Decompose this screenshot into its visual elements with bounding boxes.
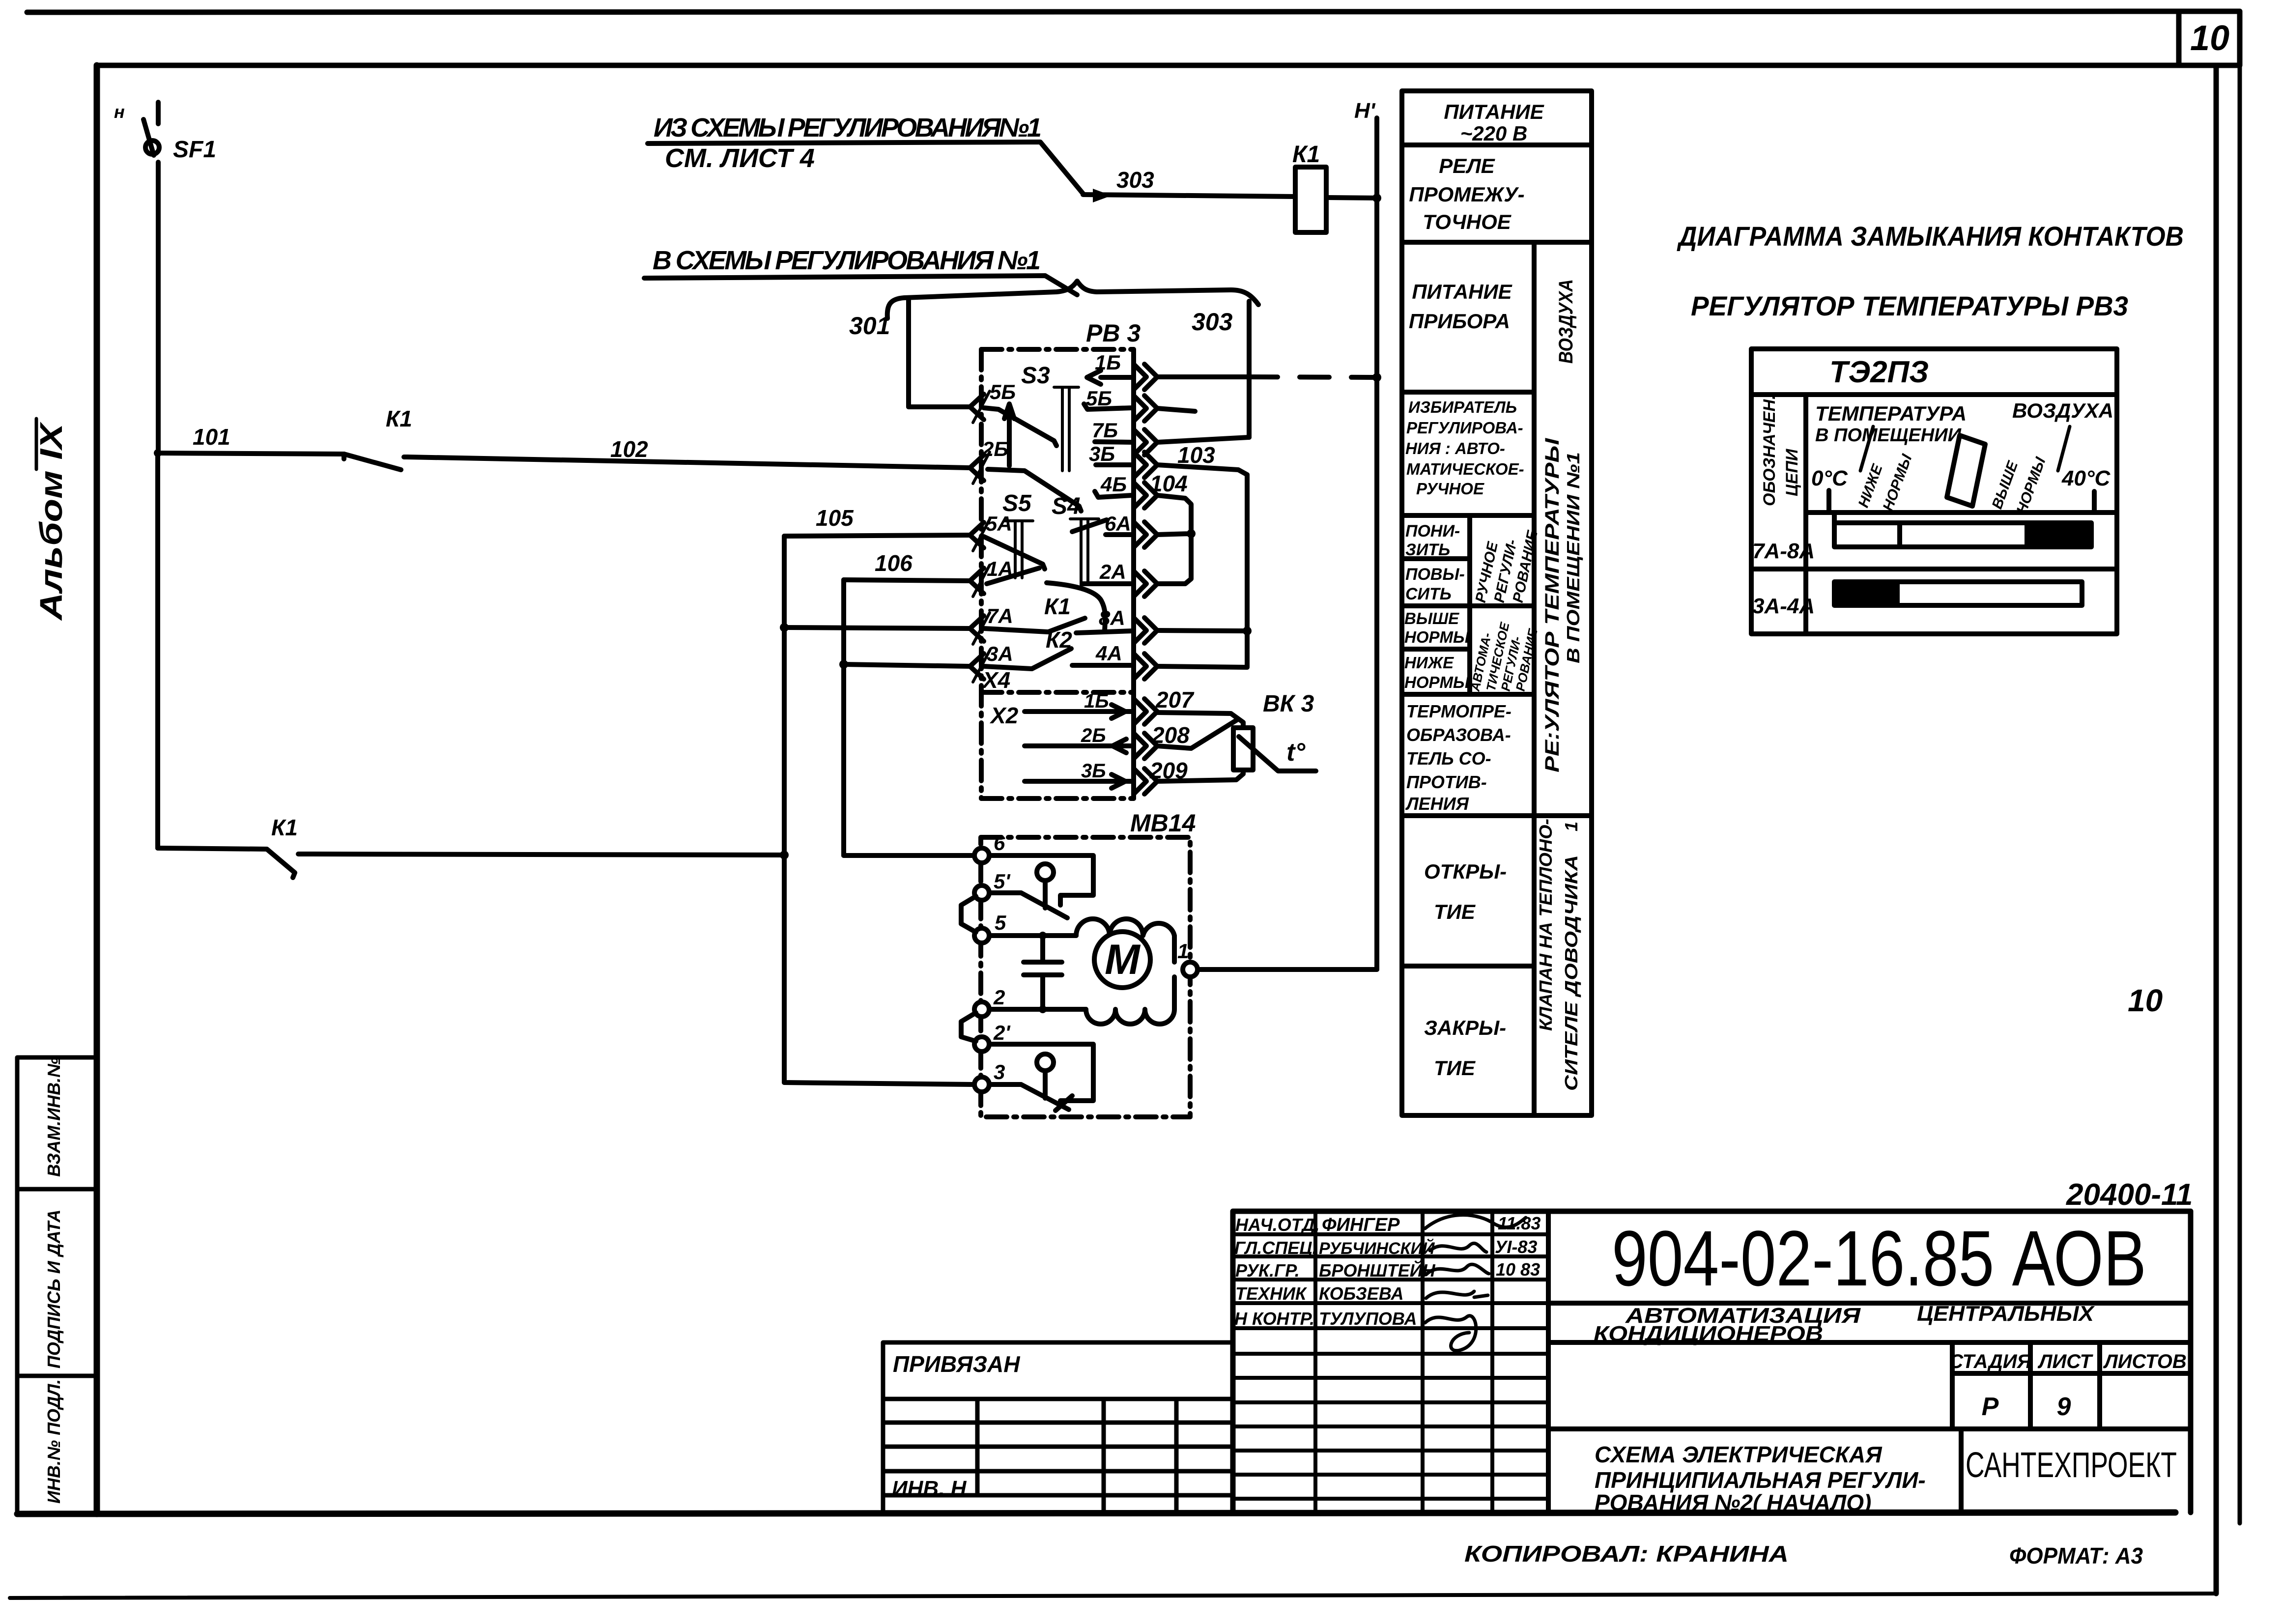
staff row2 — [1234, 1237, 1537, 1258]
page top edge line — [27, 11, 2179, 12]
svg-text:ГЛ.СПЕЦ.: ГЛ.СПЕЦ. — [1234, 1238, 1317, 1258]
svg-text:СХЕМА ЭЛЕКТРИЧЕСКАЯ: СХЕМА ЭЛЕКТРИЧЕСКАЯ — [1595, 1442, 1883, 1467]
drawing frame top line — [97, 63, 2216, 68]
switch S3 blade 2B — [988, 469, 1081, 511]
drawing frame left line — [94, 65, 100, 1514]
svg-text:ПРИВЯЗАН: ПРИВЯЗАН — [893, 1351, 1020, 1377]
svg-text:ПРИНЦИПИАЛЬНАЯ РЕГУЛИ-: ПРИНЦИПИАЛЬНАЯ РЕГУЛИ- — [1595, 1467, 1926, 1493]
svg-text:НИЯ : АВТО-: НИЯ : АВТО- — [1405, 439, 1505, 457]
svg-text:7А-8А: 7А-8А — [1752, 539, 1815, 563]
svg-text:ВЫШЕ: ВЫШЕ — [1404, 609, 1459, 627]
connector pin 6A right — [1134, 522, 1157, 547]
connector pin 1B X2 — [1134, 699, 1157, 724]
svg-text:СМ. ЛИСТ 4: СМ. ЛИСТ 4 — [665, 143, 815, 173]
connector pin 8A right — [1134, 618, 1157, 643]
svg-text:НАЧ.ОТД.: НАЧ.ОТД. — [1235, 1215, 1320, 1235]
motor pin 2 — [974, 1002, 989, 1017]
wire 208 to sensor — [1157, 719, 1238, 748]
motor pin 5 — [974, 928, 989, 943]
table text ponizit — [1405, 522, 1460, 559]
svg-text:3А-4А: 3А-4А — [1752, 594, 1815, 618]
svg-text:207: 207 — [1155, 687, 1195, 712]
table text zakrytie — [1424, 1016, 1506, 1080]
svg-text:ТЕЛЬ СО-: ТЕЛЬ СО- — [1406, 748, 1491, 769]
svg-text:Х2: Х2 — [989, 703, 1019, 728]
svg-text:ВЗАМ.ИНВ.№: ВЗАМ.ИНВ.№ — [44, 1057, 64, 1177]
node capacitor bottom — [1039, 1005, 1047, 1013]
staff row1 — [1235, 1213, 1540, 1235]
connector pin 2B left — [970, 452, 990, 484]
svg-text:Альбом IX: Альбом IX — [33, 422, 69, 621]
table text avtomaticheskoe rotated — [1467, 621, 1540, 693]
connector pin 3A left — [970, 651, 990, 682]
svg-text:2Б: 2Б — [982, 437, 1008, 460]
svg-text:~220 В: ~220 В — [1460, 122, 1528, 145]
fixed contact 3B right — [1096, 462, 1132, 467]
stadiya list listov header — [1949, 1351, 2187, 1372]
svg-text:t°: t° — [1286, 738, 1306, 767]
svg-text:S4: S4 — [1052, 493, 1081, 519]
svg-text:ОБОЗНАЧЕН.: ОБОЗНАЧЕН. — [1760, 395, 1779, 506]
svg-text:ВОЗДУХА: ВОЗДУХА — [2012, 399, 2113, 422]
svg-text:2Б: 2Б — [1081, 725, 1106, 746]
title block big dividers — [1548, 1211, 2191, 1512]
contact K1 upper — [344, 454, 408, 470]
diagram scale 40C — [2061, 466, 2111, 513]
limit switch upper roller — [1037, 864, 1054, 908]
switch S5 actuator rod — [1004, 521, 1033, 578]
diagram text temperatura — [1815, 399, 2113, 446]
svg-text:Н': Н' — [1354, 99, 1376, 123]
svg-text:103: 103 — [1177, 442, 1215, 468]
limit switch lower roller — [1037, 1054, 1054, 1098]
svg-text:5: 5 — [995, 911, 1006, 934]
svg-text:РУБЧИНСКИЙ: РУБЧИНСКИЙ — [1319, 1239, 1435, 1258]
svg-text:ПОНИ-: ПОНИ- — [1405, 522, 1460, 541]
net 106 vertical — [841, 580, 846, 855]
table text ruchnoe rotated — [1473, 529, 1541, 604]
jumper 5p-5 — [961, 896, 976, 932]
svg-text:ЛИСТОВ: ЛИСТОВ — [2103, 1351, 2187, 1372]
RV3 box left dashed edge — [979, 349, 984, 798]
svg-text:4А: 4А — [1095, 642, 1122, 665]
svg-text:4Б: 4Б — [1100, 473, 1127, 496]
wire 303 to N bus — [1326, 198, 1377, 198]
node on N bus — [1372, 194, 1381, 202]
svg-text:ТИЕ: ТИЕ — [1434, 900, 1476, 923]
svg-text:101: 101 — [193, 424, 230, 450]
connector pin 3B right — [1134, 452, 1157, 478]
limit switch lower blade — [989, 1084, 1072, 1111]
stub 3B X2 with arrow — [1025, 774, 1132, 788]
signature 4 — [1426, 1291, 1488, 1298]
table text povysit — [1405, 565, 1465, 603]
svg-text:ТИЕ: ТИЕ — [1434, 1056, 1476, 1080]
svg-text:303: 303 — [1116, 167, 1154, 193]
diagram label nizhe normy rotated — [1855, 427, 1915, 513]
svg-text:КОБЗЕВА: КОБЗЕВА — [1319, 1283, 1403, 1304]
svg-text:ТЭ2ПЗ: ТЭ2ПЗ — [1829, 355, 1929, 389]
svg-text:10: 10 — [2128, 983, 2163, 1018]
svg-text:РЕ:УЛЯТОР ТЕМПЕРАТУРЫ: РЕ:УЛЯТОР ТЕМПЕРАТУРЫ — [1541, 438, 1563, 772]
svg-text:3А: 3А — [987, 642, 1013, 665]
svg-text:7А: 7А — [987, 604, 1013, 627]
connector pin 2B X2 — [1134, 733, 1157, 759]
table text termo — [1405, 701, 1512, 814]
svg-text:6: 6 — [994, 831, 1005, 855]
svg-text:3Б: 3Б — [1081, 760, 1106, 782]
svg-text:В СХЕМЫ РЕГУЛИРОВАНИЯ №1: В СХЕМЫ РЕГУЛИРОВАНИЯ №1 — [653, 246, 1041, 275]
svg-text:5Б: 5Б — [1086, 387, 1112, 410]
svg-text:ВОЗДУХА: ВОЗДУХА — [1555, 279, 1577, 364]
svg-text:СИТЬ: СИТЬ — [1405, 585, 1452, 603]
signature 1 — [1425, 1215, 1526, 1229]
motor winding upper — [1076, 919, 1174, 962]
svg-text:МАТИЧЕСКОЕ-: МАТИЧЕСКОЕ- — [1406, 460, 1524, 478]
svg-text:ФИНГЕР: ФИНГЕР — [1322, 1215, 1400, 1235]
relay coil K1 — [1295, 167, 1326, 232]
wire 102 — [407, 457, 970, 468]
svg-text:303: 303 — [1192, 308, 1233, 336]
RV3 X4/X2 divider — [981, 690, 1134, 695]
svg-text:7Б: 7Б — [1092, 419, 1118, 442]
svg-text:КЛАПАН НА ТЕПЛОНО-: КЛАПАН НА ТЕПЛОНО- — [1536, 819, 1556, 1031]
svg-text:Н КОНТР.: Н КОНТР. — [1234, 1309, 1314, 1329]
node at 1596,1740 — [780, 851, 789, 859]
wire 301 to pin 5B — [909, 404, 970, 409]
sheet number box top right — [2179, 11, 2240, 65]
svg-text:1Б: 1Б — [1084, 690, 1109, 712]
svg-text:САНТЕХПРОЕКТ: САНТЕХПРОЕКТ — [1966, 1446, 2177, 1485]
wire to motor pin 6 — [844, 853, 973, 858]
svg-text:ПРИБОРА: ПРИБОРА — [1409, 310, 1510, 333]
wire 303 in — [1083, 195, 1295, 197]
table text rele — [1409, 154, 1524, 233]
node 104/6A — [1187, 529, 1196, 538]
svg-text:Р: Р — [1982, 1393, 1999, 1421]
switch S5 blade 5A — [984, 537, 1045, 569]
stub 2B X2 with arrow — [1025, 739, 1132, 753]
left bus down to lower K1 — [155, 453, 160, 848]
switch S3 blade 5B — [984, 408, 1056, 446]
connector pin 5B left — [970, 391, 990, 423]
wire pin5 to capacitor and winding — [989, 933, 1076, 938]
wire 6A to node — [1157, 534, 1191, 535]
net 301 vertical — [906, 299, 911, 407]
table text vyshe normy — [1404, 609, 1470, 646]
RV3 box top dashed edge — [981, 347, 1134, 352]
wire 105 — [784, 535, 970, 536]
switch S3 actuator rod — [1054, 387, 1079, 471]
svg-text:5': 5' — [994, 870, 1011, 893]
svg-text:К1: К1 — [1292, 142, 1320, 168]
motor winding lower — [1086, 977, 1174, 1024]
svg-text:ТУЛУПОВА: ТУЛУПОВА — [1319, 1309, 1417, 1329]
connector pin 1A left — [970, 565, 990, 597]
svg-text:2А: 2А — [1099, 560, 1126, 583]
svg-text:К1: К1 — [271, 815, 298, 840]
node 1B on N bus — [1372, 373, 1381, 382]
motor pin 1 — [1183, 962, 1198, 977]
svg-text:102: 102 — [610, 436, 648, 462]
motor M circle — [1094, 932, 1150, 988]
node 7A junction — [780, 623, 789, 632]
node capacitor top — [1039, 932, 1047, 940]
signature 5 — [1425, 1316, 1476, 1351]
svg-text:2': 2' — [993, 1021, 1011, 1044]
svg-text:ИНВ. Н: ИНВ. Н — [892, 1477, 967, 1501]
node 3A junction — [839, 660, 848, 669]
svg-text:ОБРАЗОВА-: ОБРАЗОВА- — [1406, 725, 1511, 745]
note v shemy leader — [644, 276, 1077, 295]
svg-text:2: 2 — [993, 986, 1005, 1009]
svg-text:ИЗБИРАТЕЛЬ: ИЗБИРАТЕЛЬ — [1408, 398, 1517, 416]
motor pin 2p — [974, 1037, 989, 1052]
table text otkrytie — [1424, 860, 1507, 923]
wire 101 — [158, 453, 344, 454]
svg-text:ЦЕНТРАЛЬНЫХ: ЦЕНТРАЛЬНЫХ — [1917, 1302, 2095, 1326]
svg-text:ПИТАНИЕ: ПИТАНИЕ — [1444, 100, 1544, 123]
fixed contact 5B right — [1084, 404, 1132, 409]
svg-text:РЕГУЛИРОВА-: РЕГУЛИРОВА- — [1406, 419, 1523, 437]
contact K2 inner — [984, 649, 1071, 669]
internal link 2A to 8A — [1047, 583, 1105, 631]
connector pin 5B right — [1134, 396, 1157, 421]
svg-text:РУК.ГР.: РУК.ГР. — [1235, 1260, 1300, 1281]
svg-text:3: 3 — [994, 1060, 1005, 1083]
wire 3A — [844, 664, 970, 666]
svg-text:ФОРМАТ: А3: ФОРМАТ: А3 — [2009, 1543, 2143, 1568]
svg-text:9: 9 — [2057, 1393, 2071, 1421]
staff row4 — [1235, 1283, 1403, 1304]
table text nizhe normy — [1404, 654, 1470, 691]
wire from K1 lower to node 105 — [298, 854, 784, 855]
jumper 2-2p — [961, 1013, 976, 1041]
connector pin 7A left — [970, 613, 990, 644]
net 303 vertical right — [1247, 301, 1252, 437]
wire 106 — [844, 580, 970, 581]
table text klapan rotated — [1536, 819, 1581, 1091]
contact K1 lower — [158, 848, 295, 878]
table text izbiratel — [1405, 398, 1524, 498]
svg-text:301: 301 — [849, 312, 890, 340]
connector pin 4A right — [1134, 654, 1157, 679]
svg-text:ТЕХНИК: ТЕХНИК — [1235, 1283, 1308, 1304]
wire 4B net 104 — [1157, 495, 1191, 584]
wire 7B to 303 — [1157, 437, 1249, 442]
svg-text:К1: К1 — [386, 406, 412, 431]
diagram bar 7A-8A outline — [1834, 513, 2091, 547]
svg-text:ЦЕПИ: ЦЕПИ — [1783, 448, 1801, 496]
signature 2 — [1430, 1243, 1486, 1252]
svg-text:8А: 8А — [1099, 606, 1125, 629]
svg-text:1: 1 — [1177, 940, 1189, 963]
wire 209 to sensor — [1157, 770, 1243, 781]
svg-text:НОРМЫ: НОРМЫ — [1404, 628, 1470, 646]
temperature arrow t — [1239, 737, 1316, 771]
privyazan table — [883, 1342, 1233, 1512]
table text pitanie pribora — [1409, 280, 1513, 333]
limit switch upper bracket — [989, 855, 1093, 905]
svg-text:ЗИТЬ: ЗИТЬ — [1405, 541, 1450, 559]
signature 3 — [1426, 1264, 1489, 1275]
thermal sensor VK3 — [1233, 728, 1253, 770]
wire pin2 to winding — [989, 1007, 1086, 1012]
schema title — [1595, 1442, 1926, 1515]
svg-text:20400-11: 20400-11 — [2066, 1178, 2193, 1212]
svg-text:ПРОТИВ-: ПРОТИВ- — [1406, 772, 1487, 792]
svg-text:БРОНШТЕЙН: БРОНШТЕЙН — [1319, 1260, 1436, 1281]
wire 8A to node — [1157, 630, 1247, 631]
wire 3B net 103 — [1157, 465, 1247, 667]
switch S4 actuator rod — [1070, 519, 1099, 585]
svg-text:КОПИРОВАЛ: КРАНИНА: КОПИРОВАЛ: КРАНИНА — [1464, 1541, 1789, 1567]
limit switch lower bracket — [989, 1044, 1093, 1101]
stub 5B right outer — [1157, 408, 1195, 411]
fixed contact 7B right — [1095, 442, 1132, 442]
svg-text:н: н — [114, 102, 125, 122]
album IX underline — [35, 419, 38, 469]
svg-text:1: 1 — [1561, 822, 1581, 831]
title block outer — [1233, 1211, 2191, 1512]
wire 2A inner — [1083, 581, 1132, 586]
svg-text:SF1: SF1 — [173, 137, 216, 163]
svg-text:НИЖЕ: НИЖЕ — [1404, 654, 1454, 672]
wire down to motor pin 3 — [784, 855, 973, 1084]
stub 1B inner with arrow — [1087, 370, 1132, 384]
fixed contact 8A right — [1076, 631, 1132, 633]
net 2B rising arrow — [1004, 404, 1014, 466]
switch S5 blade 1A — [987, 568, 1039, 584]
motor pin 3 — [974, 1077, 989, 1092]
diagram bar 3A-4A filled — [1834, 582, 1900, 605]
stub 1B X2 with arrow — [1025, 705, 1132, 718]
motor unit MV14 dashed box — [981, 837, 1190, 1117]
diagram bar 7A-8A filled — [2025, 523, 2091, 547]
title avtomatizaciya — [1594, 1302, 2095, 1346]
wire 1B to N bus — [1157, 377, 1377, 377]
diagram bar 3A-4A outline — [1834, 582, 2082, 605]
fixed contact 4B right — [1095, 491, 1132, 497]
svg-text:105: 105 — [816, 505, 854, 531]
connector pin 4B right — [1134, 483, 1157, 508]
svg-text:S5: S5 — [1002, 490, 1032, 516]
drawing frame bottom line — [17, 1512, 2175, 1514]
diagram table TE2P3 frame — [1751, 349, 2117, 634]
limit switch upper blade — [989, 893, 1067, 918]
wire pin1 to N bus — [1198, 967, 1377, 972]
svg-text:104: 104 — [1150, 471, 1188, 496]
staff row5 — [1234, 1309, 1417, 1329]
drawing frame right outer line — [2238, 65, 2242, 1523]
connector pin 7B right — [1134, 429, 1157, 455]
svg-text:НОРМЫ: НОРМЫ — [1404, 673, 1470, 691]
fixed contact 4A right — [1072, 663, 1132, 668]
diagram scale 0C — [1811, 466, 1848, 513]
svg-text:КОНДИЦИОНЕРОВ: КОНДИЦИОНЕРОВ — [1594, 1322, 1823, 1346]
svg-text:10 83: 10 83 — [1496, 1259, 1540, 1280]
arrow on wire 303 — [1093, 189, 1112, 202]
net 105 vertical — [782, 536, 787, 1083]
svg-text:МВ14: МВ14 — [1130, 809, 1196, 837]
svg-text:ПОДПИСЬ И ДАТА: ПОДПИСЬ И ДАТА — [44, 1209, 64, 1368]
svg-text:РУЧНОЕ: РУЧНОЕ — [1416, 480, 1484, 498]
svg-text:0°С: 0°С — [1811, 466, 1848, 490]
svg-text:ОТКРЫ-: ОТКРЫ- — [1424, 860, 1507, 883]
contact K1 inner — [984, 618, 1085, 632]
connector pin 3B X2 — [1134, 769, 1157, 794]
svg-text:40°С: 40°С — [2061, 466, 2111, 490]
svg-text:3Б: 3Б — [1089, 442, 1115, 465]
fixed contact 6A right — [1106, 532, 1132, 537]
svg-text:ЛИСТ: ЛИСТ — [2037, 1351, 2094, 1372]
wire 7A — [784, 627, 970, 628]
RV3 box right edge — [1131, 349, 1136, 798]
svg-text:106: 106 — [875, 550, 913, 576]
breaker SF1 — [143, 102, 159, 453]
svg-text:ДИАГРАММА ЗАМЫКАНИЯ КОНТАКТО: ДИАГРАММА ЗАМЫКАНИЯ КОНТАКТОВ — [1677, 221, 2184, 252]
node 103/8A — [1243, 627, 1252, 635]
left inventory table border — [17, 1057, 97, 1514]
svg-text:РОВАНИЯ №2( НАЧАЛО): РОВАНИЯ №2( НАЧАЛО) — [1595, 1490, 1871, 1515]
svg-text:РЕГУЛЯТОР ТЕМПЕРАТУРЫ РВ3: РЕГУЛЯТОР ТЕМПЕРАТУРЫ РВ3 — [1691, 290, 2128, 321]
svg-text:ЛЕНИЯ: ЛЕНИЯ — [1405, 794, 1469, 814]
svg-text:ИЗ СХЕМЫ РЕГУЛИРОВАНИЯ№1: ИЗ СХЕМЫ РЕГУЛИРОВАНИЯ№1 — [654, 113, 1042, 142]
brace to regulation scheme — [887, 281, 1258, 318]
page bottom edge line — [10, 1594, 2216, 1598]
annotation table frame — [1402, 91, 1592, 1115]
svg-text:10: 10 — [2190, 19, 2229, 58]
svg-text:СТАДИЯ: СТАДИЯ — [1949, 1351, 2031, 1372]
svg-text:ЗАКРЫ-: ЗАКРЫ- — [1424, 1016, 1506, 1039]
svg-text:СИТЕЛЕ ДОВОДЧИКА: СИТЕЛЕ ДОВОДЧИКА — [1561, 855, 1581, 1091]
motor pin 5p — [974, 885, 989, 900]
diagram setpoint parallelogram — [1947, 435, 1985, 506]
svg-text:6А: 6А — [1105, 512, 1131, 535]
staff table grid — [1233, 1211, 1548, 1512]
RV3 box bottom dashed edge — [981, 796, 1134, 801]
table text pitanie 220 — [1444, 100, 1544, 145]
svg-text:ПОВЫ-: ПОВЫ- — [1405, 565, 1465, 584]
note iz shemy leader — [648, 142, 1083, 194]
svg-text:ТОЧНОЕ: ТОЧНОЕ — [1423, 210, 1512, 233]
connector pin 5A left — [970, 519, 990, 551]
diagram col header oboznachen rotated — [1760, 395, 1801, 506]
motor pin 6 — [974, 848, 989, 863]
switch S4 blade 6A — [1072, 520, 1107, 532]
wire 207 to sensor — [1157, 712, 1243, 728]
svg-text:ИНВ.№ ПОДЛ.: ИНВ.№ ПОДЛ. — [44, 1379, 64, 1504]
svg-text:В ПОМЕЩЕНИИ №1: В ПОМЕЩЕНИИ №1 — [1563, 452, 1583, 663]
connector pin 1B right — [1134, 364, 1157, 390]
svg-text:ТЕМПЕРАТУРА: ТЕМПЕРАТУРА — [1815, 402, 1967, 425]
svg-text:РЕЛЕ: РЕЛЕ — [1439, 154, 1495, 177]
svg-text:РВ 3: РВ 3 — [1086, 319, 1141, 347]
svg-text:М: М — [1105, 936, 1141, 983]
svg-text:5Б: 5Б — [990, 380, 1016, 403]
svg-text:ВК 3: ВК 3 — [1263, 691, 1314, 717]
capacitor C — [1024, 936, 1062, 1009]
staff row3 — [1235, 1259, 1540, 1281]
svg-text:S3: S3 — [1021, 363, 1050, 389]
svg-text:ПРОМЕЖУ-: ПРОМЕЖУ- — [1409, 183, 1524, 206]
svg-text:ТЕРМОПРЕ-: ТЕРМОПРЕ- — [1406, 701, 1512, 721]
drawing frame right inner line — [2214, 65, 2219, 1594]
diagram label vyshe normy rotated — [1989, 427, 2070, 516]
svg-text:В ПОМЕЩЕНИИ: В ПОМЕЩЕНИИ — [1815, 425, 1962, 446]
svg-text:К1: К1 — [1044, 594, 1071, 619]
N bus vertical — [1374, 118, 1379, 969]
